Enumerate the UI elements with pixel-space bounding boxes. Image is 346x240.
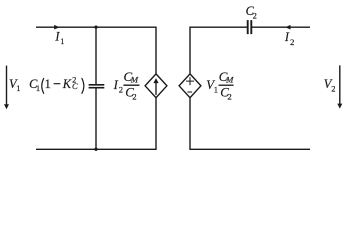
node A junction dot [94,25,97,28]
label V1 [9,77,21,93]
svg-text:1: 1 [60,37,64,46]
svg-text:M: M [130,75,139,85]
label V2 [324,77,336,94]
minus sign inside E1 [187,91,192,93]
current arrow I1 head [54,25,59,30]
wire capacitor C1 to node B [95,88,97,149]
label C2 [246,4,257,20]
plus sign inside E1 [186,77,194,85]
svg-text:2: 2 [227,91,231,101]
dependent voltage source E1 diamond [179,74,201,98]
wire source E1 to bottom conductor [189,98,191,150]
svg-text:2: 2 [331,83,335,93]
svg-text:2: 2 [290,37,294,47]
value label C1(1-Kc^2) [29,75,84,94]
capacitor C1 bottom plate [89,87,105,89]
label I2 [284,30,295,47]
svg-text:1: 1 [16,83,20,93]
svg-text:K: K [62,77,72,91]
svg-text:1: 1 [214,84,218,94]
fraction bar F1 [123,84,139,86]
svg-text:1: 1 [45,77,51,91]
wire node A down to capacitor C1 [95,27,97,85]
fraction bar E1 [219,84,234,86]
voltage arrow V2 shaft [339,65,341,104]
wire bottom conductor port1 to node B to source branch [36,148,156,150]
svg-text:2: 2 [132,91,136,101]
capacitor C2 left plate [247,20,249,34]
label fraction CM numerator for F1 [124,69,139,85]
label I2 coefficient of F1 [113,78,123,95]
label fraction denominator C2 for E1 [220,85,232,102]
arrow inside F1 head [153,78,158,83]
wire node A corner down to source F1 [154,27,157,74]
voltage arrow V2 head [337,104,342,109]
label I1 [54,30,64,46]
wire top conductor source E1 to capacitor C2 [190,27,247,74]
label fraction denominator C2 for F1 [125,85,137,102]
label V1 coefficient of E1 [206,78,218,95]
wire top conductor port1 to node A [36,26,96,28]
label fraction CM numerator for E1 [219,69,234,85]
dependent current source F1 diamond [145,74,167,98]
wire source F1 to bottom conductor [155,98,157,150]
current arrow I2 head [285,25,290,30]
wire bottom conductor of port2 [190,148,310,150]
wire capacitor C2 to port2 [252,26,310,28]
voltage arrow V1 head [4,104,9,109]
svg-text:2: 2 [253,10,257,20]
arrow inside F1 shaft [155,83,157,95]
svg-text:1: 1 [36,83,40,93]
wire node A to right corner [96,26,156,28]
capacitor C1 top plate [89,84,105,86]
capacitor C2 right plate [250,20,252,34]
voltage arrow V1 shaft [6,66,8,106]
svg-text:I: I [113,78,119,92]
svg-text:C: C [72,81,78,91]
svg-text:2: 2 [119,84,123,94]
svg-text:M: M [225,75,234,85]
node B junction dot [94,148,97,151]
